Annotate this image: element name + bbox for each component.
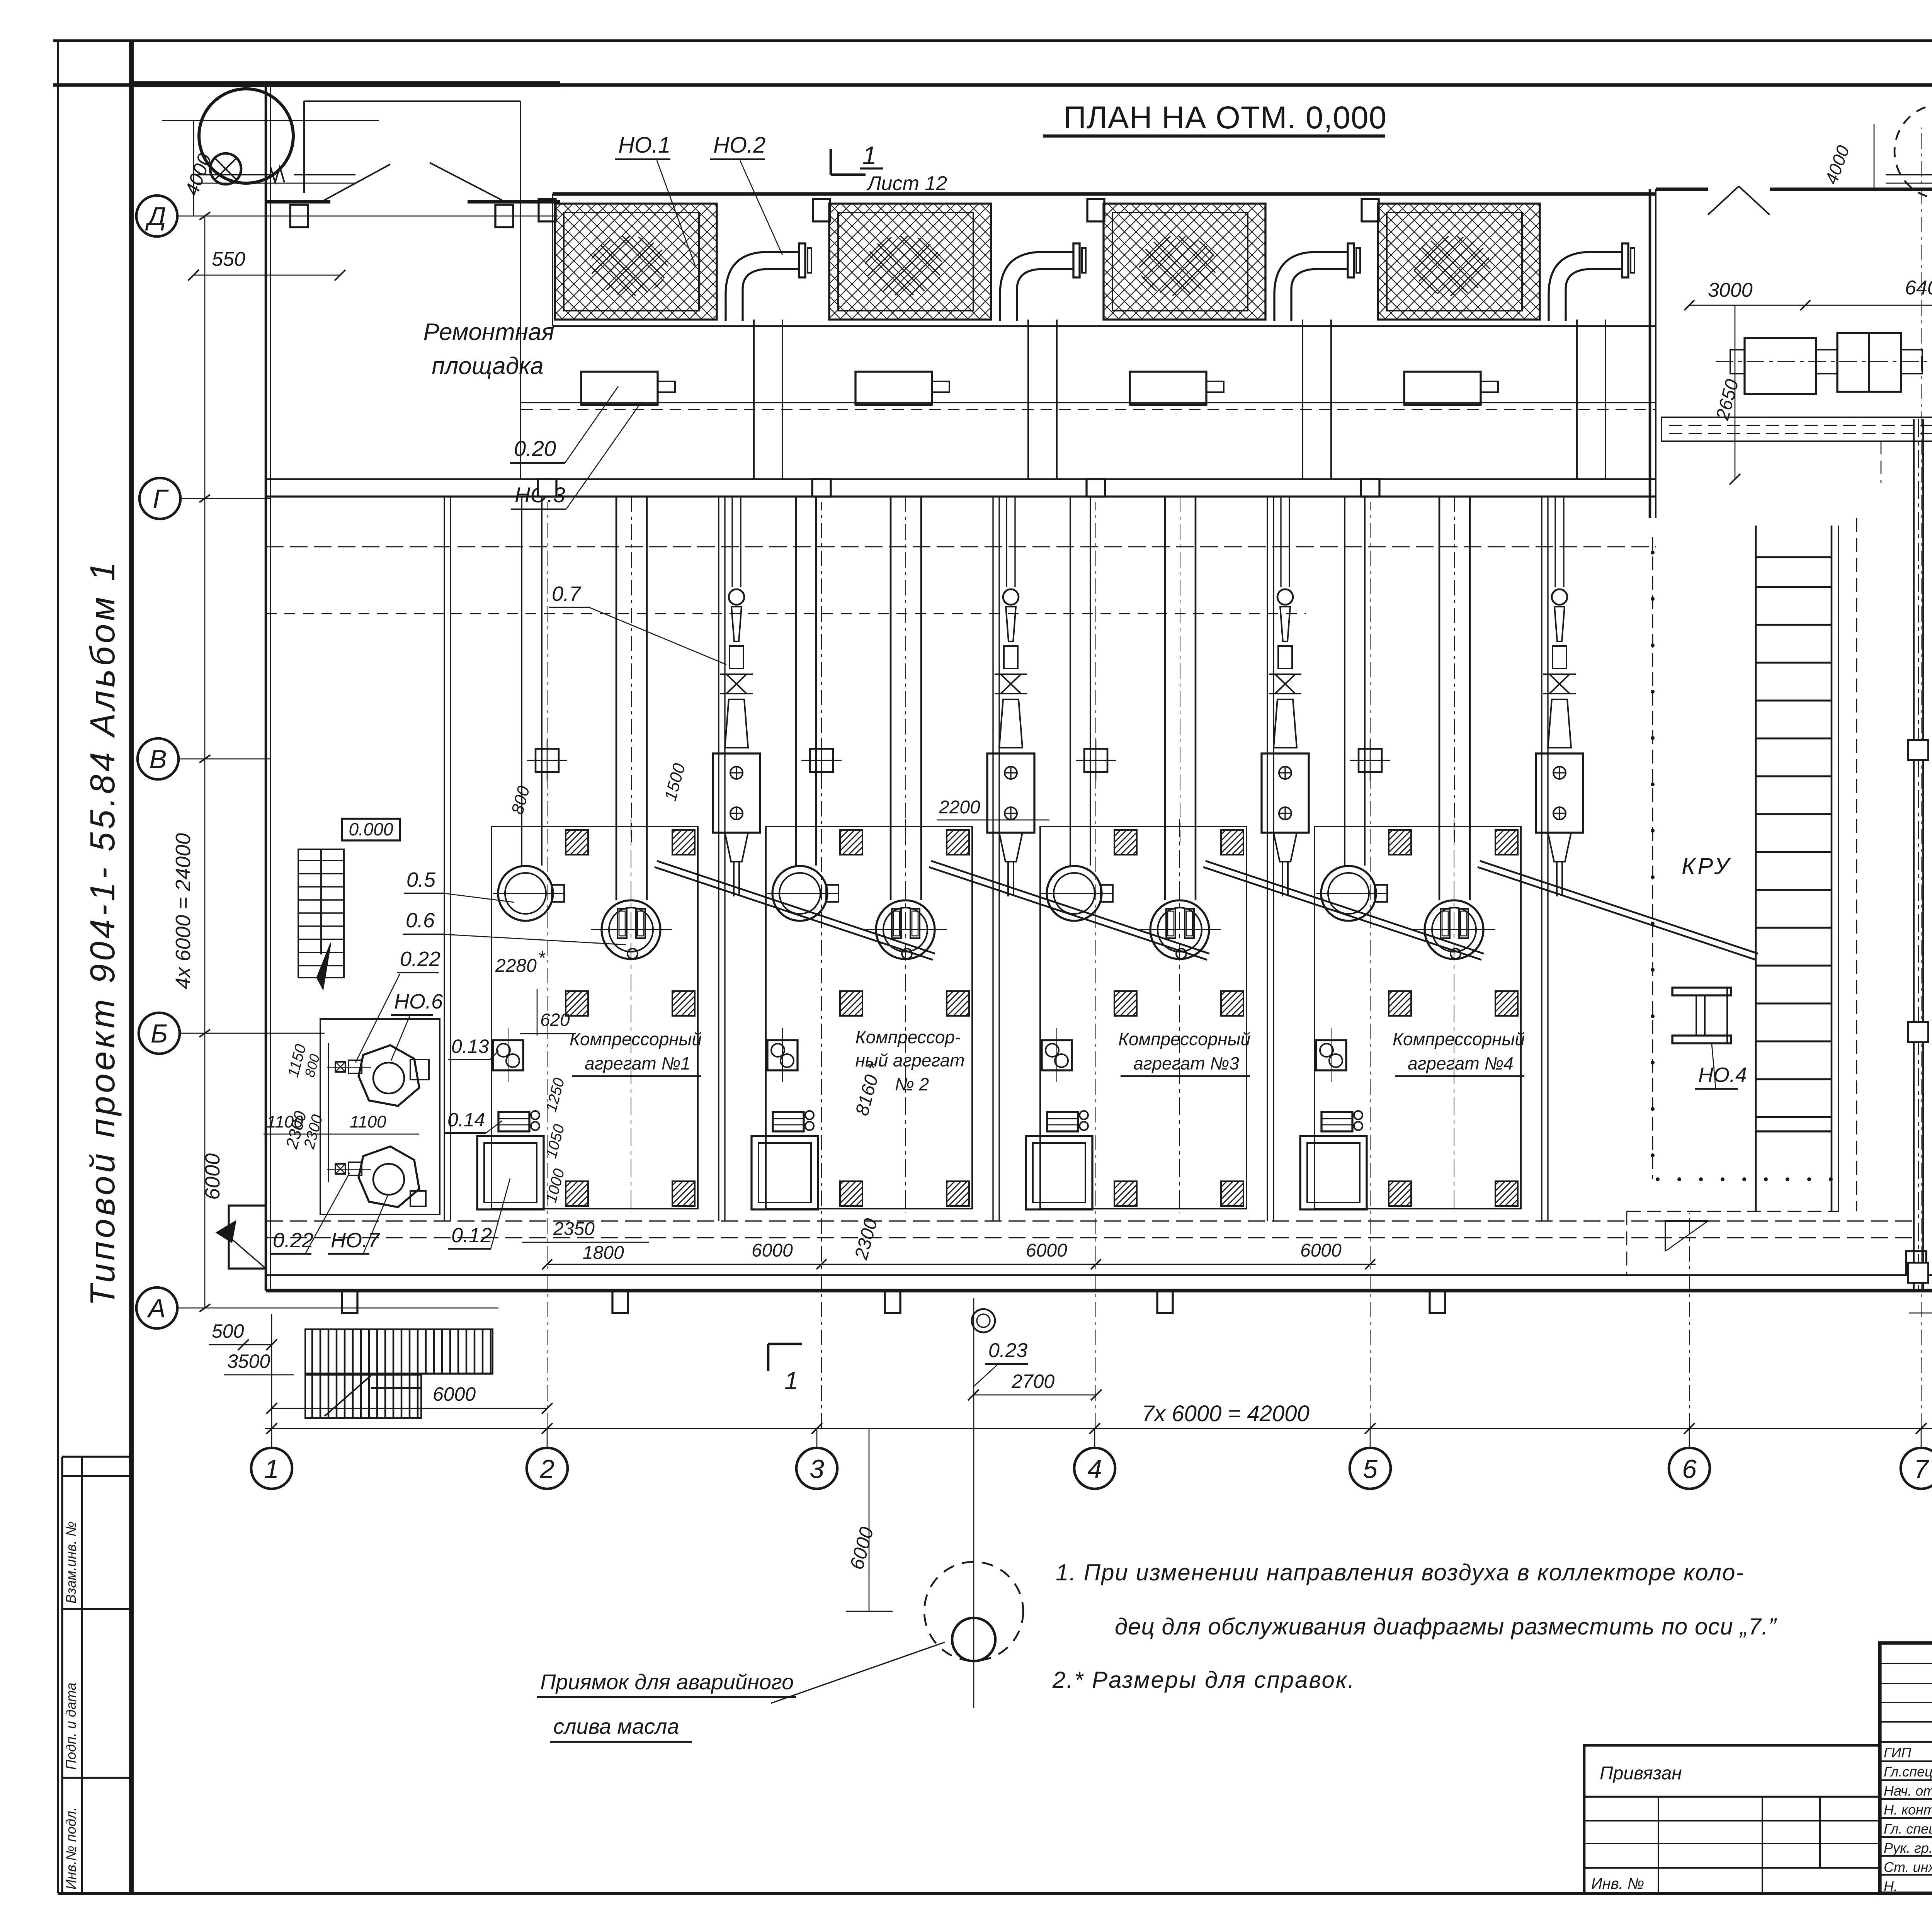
svg-text:Н.: Н. — [1884, 1878, 1898, 1894]
building left wall — [265, 84, 267, 1291]
svg-text:А: А — [146, 1294, 165, 1323]
oil pump pad 1 — [493, 1040, 523, 1070]
bottom dimension line 7x6000 — [265, 1428, 1932, 1429]
crane dimension 4000 left — [193, 121, 194, 216]
electric motor circle 3 — [1047, 866, 1102, 921]
main air duct down to compressor 3 — [1164, 497, 1166, 900]
svg-text:4х 6000 = 24000: 4х 6000 = 24000 — [172, 833, 195, 989]
column pad axis 4 — [1359, 749, 1382, 772]
intake chamber 4 filter hatch patch — [1413, 236, 1491, 296]
svg-text:6000: 6000 — [1300, 1240, 1342, 1261]
foundation compressor unit 3 — [1040, 827, 1247, 1209]
gallery column — [538, 479, 556, 497]
svg-text:0.000: 0.000 — [349, 819, 393, 839]
section mark 1 bottom — [767, 1344, 770, 1371]
bay centerline 4 — [1454, 819, 1454, 1213]
axis 1 bubble — [251, 1448, 292, 1489]
elevation mark 0.000 box — [342, 819, 400, 840]
svg-text:550: 550 — [212, 248, 245, 270]
svg-text:2: 2 — [539, 1454, 554, 1484]
motor feed duct 1 — [521, 497, 522, 866]
column pad axis 2 — [810, 749, 833, 772]
svg-text:№ 2: № 2 — [895, 1074, 929, 1094]
oil tank 0.12 1 — [477, 1136, 544, 1209]
KRU cable shaft ladder — [1755, 526, 1757, 1211]
svg-text:6000: 6000 — [1026, 1240, 1067, 1261]
motor feed duct 4 — [1344, 497, 1345, 866]
balcony edge line — [521, 402, 1656, 403]
svg-text:6400: 6400 — [1905, 277, 1932, 299]
motor feed duct 3 — [1070, 497, 1071, 866]
svg-text:1: 1 — [264, 1454, 279, 1484]
fan motor 1 — [581, 372, 658, 405]
svg-text:Н. контр.: Н. контр. — [1884, 1802, 1932, 1818]
svg-text:2.* Размеры для справок.: 2.* Размеры для справок. — [1052, 1667, 1355, 1693]
valves 0.22 lower — [335, 1164, 345, 1174]
axis Д bubble — [136, 196, 177, 236]
svg-text:0.14: 0.14 — [447, 1109, 485, 1131]
central corridor wall — [1913, 419, 1915, 1291]
page top border band — [53, 39, 1932, 42]
axis 2 bubble — [527, 1448, 568, 1489]
intake chamber 2 filter hatch patch — [865, 236, 942, 296]
svg-text:1. При изменении направлен: 1. При изменении направления воздуха в к… — [1056, 1560, 1744, 1585]
svg-text:1: 1 — [862, 141, 877, 170]
svg-text:0.23: 0.23 — [988, 1339, 1027, 1362]
svg-text:Типовой проект 904-1- 55.: Типовой проект 904-1- 55.84 Альбом 1 — [83, 559, 122, 1306]
dim 4000 right — [1874, 124, 1875, 189]
discharge pipe and valve train 1 — [731, 497, 733, 587]
svg-text:4: 4 — [1087, 1454, 1102, 1484]
suction elbow pipe 3 — [1274, 252, 1348, 321]
electric motor circle 2 — [772, 866, 827, 921]
svg-text:500: 500 — [212, 1320, 244, 1342]
KTP top wall with door chevrons — [1656, 187, 1708, 191]
svg-text:Ремонтная: Ремонтная — [423, 319, 554, 345]
door detail lower KRU — [1665, 1221, 1708, 1251]
axis 4 bubble — [1074, 1448, 1115, 1489]
svg-text:агрегат №4: агрегат №4 — [1408, 1053, 1514, 1073]
suction elbow pipe 4 — [1549, 252, 1622, 321]
page bottom border — [58, 1892, 1932, 1895]
svg-text:КРУ: КРУ — [1682, 853, 1731, 879]
device 0.14 3 — [1047, 1112, 1078, 1131]
svg-text:НО.6: НО.6 — [394, 990, 443, 1013]
svg-text:Б: Б — [151, 1019, 168, 1048]
intake chamber 1 hatched walls — [555, 204, 717, 320]
foundation compressor unit 2 — [766, 827, 972, 1209]
axis А bubble — [136, 1287, 177, 1328]
south external stair — [305, 1329, 493, 1374]
inner wall below chambers — [553, 325, 1656, 327]
wall segment at axis D — [266, 200, 330, 203]
svg-text:Компрессорный: Компрессорный — [570, 1029, 702, 1049]
svg-text:1800: 1800 — [583, 1243, 624, 1263]
left vertical dimension 4x6000=24000 — [204, 216, 206, 1308]
svg-text:Д: Д — [145, 202, 166, 231]
repair area door chevron — [321, 164, 390, 202]
title block signature rows — [1880, 1663, 1932, 1664]
svg-text:3000: 3000 — [1708, 279, 1753, 301]
svg-text:1100: 1100 — [267, 1112, 303, 1131]
compressor circle 3 — [1150, 900, 1209, 959]
oil pump pad 2 — [767, 1040, 798, 1070]
tail pipe into compressor 4 — [1556, 862, 1558, 896]
bay centerline 1 — [631, 819, 631, 1213]
column pad axis 3 — [1084, 749, 1107, 772]
pit label leader — [771, 1642, 945, 1703]
compressor circle 1 — [602, 900, 660, 959]
svg-text:НО.2: НО.2 — [713, 133, 765, 158]
svg-text:0.7: 0.7 — [552, 582, 582, 605]
mezzanine dashed line — [266, 546, 1656, 548]
svg-text:Гл.спец.пр: Гл.спец.пр — [1884, 1764, 1932, 1779]
axis 5 bubble — [1350, 1448, 1391, 1489]
gallery column — [1361, 479, 1379, 497]
axis A line — [177, 1308, 498, 1309]
svg-text:площадка: площадка — [432, 353, 544, 379]
oil pump pad 3 — [1042, 1040, 1072, 1070]
svg-text:ГИП: ГИП — [1884, 1745, 1912, 1760]
oil tank 0.12 3 — [1026, 1136, 1092, 1209]
axis V line — [179, 759, 270, 760]
drawing frame left border — [129, 41, 134, 1893]
axis Г bubble — [139, 478, 180, 519]
suction elbow pipe 2 — [1000, 252, 1073, 321]
svg-text:Компрессорный: Компрессорный — [1393, 1029, 1525, 1049]
axis 6 bubble — [1669, 1448, 1710, 1489]
southwest vestibule — [229, 1206, 266, 1269]
KRU right dashed line — [1838, 526, 1839, 1211]
KRU boundary dash-dot with dots — [1652, 537, 1653, 1179]
svg-text:В: В — [149, 745, 167, 774]
svg-text:0.13: 0.13 — [451, 1036, 489, 1057]
svg-text:2280: 2280 — [495, 956, 537, 976]
inter-bay pipe chases — [444, 497, 445, 1221]
axis 7 bubble — [1901, 1448, 1932, 1489]
column pad axis 1 — [536, 749, 559, 772]
dim 6000 vertical to pit — [869, 1429, 870, 1611]
svg-text:дец для обслуживания диа: дец для обслуживания диафрагмы разместит… — [1115, 1614, 1777, 1639]
top wall of machine hall (chamber section) — [553, 192, 1656, 196]
axis B line — [180, 1033, 325, 1034]
pump foundation — [320, 1019, 440, 1214]
device 0.14 4 — [1321, 1112, 1352, 1131]
axis G line — [180, 498, 270, 499]
svg-text:Гл. спец.: Гл. спец. — [1884, 1821, 1932, 1837]
crane hook circle with cross — [210, 153, 241, 184]
axis 3 bubble — [796, 1448, 837, 1489]
repair area right wall — [520, 101, 521, 479]
oil pump pad 4 — [1316, 1040, 1346, 1070]
tail pipe into compressor 3 — [1282, 862, 1283, 896]
svg-text:*: * — [538, 948, 546, 968]
cable channel strip — [1662, 417, 1932, 441]
binding sub-table — [1584, 1745, 1880, 1893]
svg-text:6000: 6000 — [433, 1383, 476, 1405]
valve block 1 — [713, 753, 760, 833]
svg-text:Компрессорный: Компрессорный — [1118, 1029, 1250, 1049]
suction elbow pipe 1 — [726, 252, 799, 321]
machine hall / KTP dividing wall — [1649, 189, 1651, 518]
right crane rail — [1886, 174, 1932, 175]
svg-text:НО.1: НО.1 — [618, 133, 670, 158]
dim 2650 vertical — [1735, 305, 1736, 479]
device 0.14 2 — [773, 1112, 804, 1131]
svg-text:НО.4: НО.4 — [1698, 1063, 1747, 1087]
compressor circle 2 — [876, 900, 935, 959]
crane circle left — [199, 89, 293, 183]
pump NO.6 — [359, 1045, 419, 1106]
svg-text:агрегат №3: агрегат №3 — [1133, 1053, 1239, 1073]
svg-text:Инв. №: Инв. № — [1591, 1875, 1644, 1892]
crane rail left — [197, 174, 270, 175]
discharge pipe and valve train 3 — [1280, 497, 1281, 587]
svg-text:6: 6 — [1682, 1454, 1697, 1484]
svg-text:Инв.№ подл.: Инв.№ подл. — [63, 1807, 79, 1889]
valve block 4 — [1536, 753, 1583, 833]
svg-text:агрегат №1: агрегат №1 — [585, 1053, 690, 1073]
svg-text:Рук. гр.: Рук. гр. — [1884, 1840, 1932, 1856]
svg-text:ПЛАН НА ОТМ. 0,000: ПЛАН НА ОТМ. 0,000 — [1063, 100, 1387, 135]
axis grid lines up into plan — [271, 1314, 272, 1429]
svg-text:0.12: 0.12 — [451, 1224, 492, 1247]
svg-text:2350: 2350 — [553, 1219, 595, 1239]
svg-text:3: 3 — [810, 1454, 824, 1484]
tail pipe into compressor 2 — [1007, 862, 1009, 896]
discharge pipe and valve train 4 — [1554, 497, 1556, 587]
svg-text:2700: 2700 — [1011, 1371, 1054, 1392]
svg-text:Привязан: Привязан — [1600, 1763, 1682, 1784]
svg-text:6000: 6000 — [752, 1240, 793, 1261]
internal stair left — [298, 849, 344, 978]
intake chamber 4 hatched walls — [1378, 204, 1540, 320]
pump NO.7 — [359, 1146, 419, 1207]
svg-text:3500: 3500 — [227, 1350, 270, 1372]
svg-text:7х 6000 = 42000: 7х 6000 = 42000 — [1142, 1401, 1310, 1426]
bay centerline 2 — [905, 819, 906, 1213]
discharge pipe and valve train 2 — [1006, 497, 1007, 587]
intake chamber 2 hatched walls — [829, 204, 991, 320]
svg-text:Взам.инв. №: Взам.инв. № — [63, 1521, 79, 1604]
south corridor dashed lines — [266, 1220, 1913, 1221]
intake chamber 3 filter hatch patch — [1139, 236, 1216, 296]
svg-text:1100: 1100 — [350, 1112, 386, 1131]
fan motor 3 — [1130, 372, 1206, 405]
suction ducts from chambers — [753, 320, 755, 479]
compressor circle 4 — [1425, 900, 1483, 959]
svg-text:Подп. и дата: Подп. и дата — [63, 1683, 79, 1770]
svg-text:6000: 6000 — [201, 1153, 224, 1200]
intake chamber 1 filter hatch patch — [590, 236, 668, 296]
svg-text:Компрессор-: Компрессор- — [855, 1027, 961, 1047]
svg-text:0.6: 0.6 — [406, 909, 435, 932]
fan motor 4 — [1404, 372, 1481, 405]
channel branch dashed — [1662, 441, 1881, 442]
valve block 3 — [1262, 753, 1309, 833]
main air duct down to compressor 4 — [1439, 497, 1440, 900]
drain 0.23 circle — [972, 1309, 995, 1332]
svg-text:Нач. отд: Нач. отд — [1884, 1783, 1932, 1799]
axis Б bubble — [139, 1013, 180, 1054]
valves 0.22 upper — [335, 1062, 345, 1072]
svg-text:Г: Г — [153, 484, 169, 514]
KTP dim line 3000 6400 — [1689, 305, 1932, 306]
device 0.14 1 — [498, 1112, 529, 1131]
foundation compressor unit 4 — [1315, 827, 1521, 1209]
axis В bubble — [138, 738, 179, 779]
svg-text:0.20: 0.20 — [514, 436, 556, 461]
svg-text:0.22: 0.22 — [400, 947, 440, 971]
oil tank 0.12 2 — [752, 1136, 818, 1209]
svg-text:0.22: 0.22 — [273, 1229, 313, 1252]
svg-text:Лист 12: Лист 12 — [866, 172, 947, 195]
svg-text:7: 7 — [1914, 1454, 1929, 1484]
section mark 1 list 12 top — [830, 149, 832, 175]
dimension 550 — [194, 275, 340, 276]
svg-text:5: 5 — [1363, 1454, 1378, 1484]
building top wall left section (thick over band) — [131, 81, 560, 87]
main air duct down to compressor 2 — [890, 497, 892, 900]
motor feed duct 2 — [795, 497, 797, 866]
gallery column — [812, 479, 831, 497]
NO.4 unit — [1672, 988, 1731, 995]
transformer row — [1716, 361, 1932, 362]
svg-text:620: 620 — [540, 1010, 570, 1030]
left margin stamp strip — [61, 1457, 63, 1893]
svg-text:Приямок для аварийного: Приямок для аварийного — [540, 1670, 794, 1694]
gallery column — [1087, 479, 1105, 497]
drain centerline down to pit — [973, 1298, 975, 1708]
axis D line — [177, 216, 558, 217]
svg-text:Ст. инж.: Ст. инж. — [1884, 1859, 1932, 1875]
main air duct down to compressor 1 — [616, 497, 617, 900]
bay centerline 3 — [1179, 819, 1180, 1213]
KRU bottom dotted row — [1656, 1177, 1660, 1181]
intake chamber 3 hatched walls — [1104, 204, 1265, 320]
tail pipe into compressor 1 — [733, 862, 735, 896]
gallery edge double line — [266, 478, 1656, 480]
building south wall — [266, 1274, 1932, 1276]
repair area hatch opening — [304, 100, 520, 102]
fan motor 2 — [855, 372, 932, 405]
valve block 2 — [987, 753, 1034, 833]
svg-text:2200: 2200 — [939, 797, 980, 818]
page outer left border — [57, 41, 59, 1893]
electric motor circle 1 — [498, 866, 553, 921]
title block outer frame — [1880, 1643, 1932, 1893]
svg-text:слива масла: слива масла — [553, 1714, 679, 1738]
electric motor circle 4 — [1321, 866, 1376, 921]
right crane circle p1 TT — [1895, 104, 1932, 199]
oil tank 0.12 4 — [1300, 1136, 1367, 1209]
svg-text:1: 1 — [784, 1367, 798, 1395]
emergency oil drain pit dashed circle — [924, 1562, 1023, 1661]
foundation compressor unit 1 — [492, 827, 698, 1209]
svg-text:0.5: 0.5 — [406, 868, 436, 891]
